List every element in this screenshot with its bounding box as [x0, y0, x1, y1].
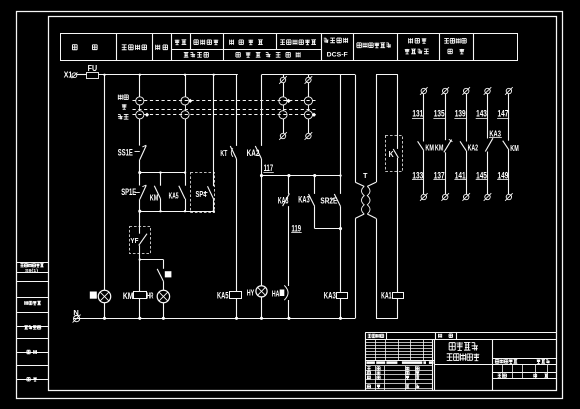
- svg-text:DCS-F: DCS-F: [327, 52, 348, 59]
- svg-text:147: 147: [498, 109, 509, 119]
- svg-text:139: 139: [455, 109, 466, 119]
- svg-text:KA3: KA3: [278, 196, 289, 206]
- svg-text:143: 143: [476, 109, 487, 119]
- svg-text:141: 141: [455, 171, 466, 181]
- svg-text:149: 149: [498, 171, 509, 181]
- svg-text:KA3: KA3: [489, 129, 501, 139]
- svg-text:KA5: KA5: [217, 291, 229, 301]
- svg-text:133: 133: [412, 171, 423, 181]
- svg-text:X1: X1: [64, 70, 73, 79]
- svg-text:K: K: [389, 149, 395, 159]
- svg-text:HA: HA: [272, 289, 280, 298]
- svg-text:117: 117: [264, 163, 274, 173]
- svg-text:KT: KT: [220, 148, 227, 158]
- svg-text:119: 119: [292, 223, 302, 233]
- svg-text:KA2: KA2: [247, 148, 260, 158]
- svg-text:HR: HR: [147, 291, 154, 300]
- svg-text:KA3: KA3: [298, 194, 310, 204]
- svg-text:YF: YF: [130, 236, 138, 245]
- svg-text:KA3: KA3: [324, 291, 336, 301]
- svg-text:HY: HY: [247, 288, 255, 297]
- svg-text:145: 145: [476, 171, 487, 181]
- svg-text:KM: KM: [435, 143, 444, 153]
- svg-text:SP4: SP4: [196, 190, 207, 199]
- svg-text:KM: KM: [123, 291, 134, 301]
- svg-text:T: T: [363, 173, 368, 180]
- svg-text:137: 137: [434, 171, 445, 181]
- svg-text:135: 135: [434, 109, 445, 119]
- svg-text:KA2: KA2: [468, 143, 479, 153]
- svg-text:SR2E: SR2E: [320, 196, 337, 206]
- svg-text:SP1E: SP1E: [121, 187, 136, 197]
- svg-text:SS1E: SS1E: [118, 147, 133, 157]
- svg-text:131: 131: [412, 109, 423, 119]
- svg-text:KM: KM: [425, 143, 434, 153]
- svg-text:KA1: KA1: [381, 291, 392, 301]
- svg-text:FU: FU: [88, 64, 98, 73]
- svg-text:KM: KM: [510, 143, 519, 153]
- svg-text:KM: KM: [150, 192, 159, 202]
- svg-text:S9(1): S9(1): [25, 268, 39, 273]
- svg-text:KA5: KA5: [169, 190, 179, 200]
